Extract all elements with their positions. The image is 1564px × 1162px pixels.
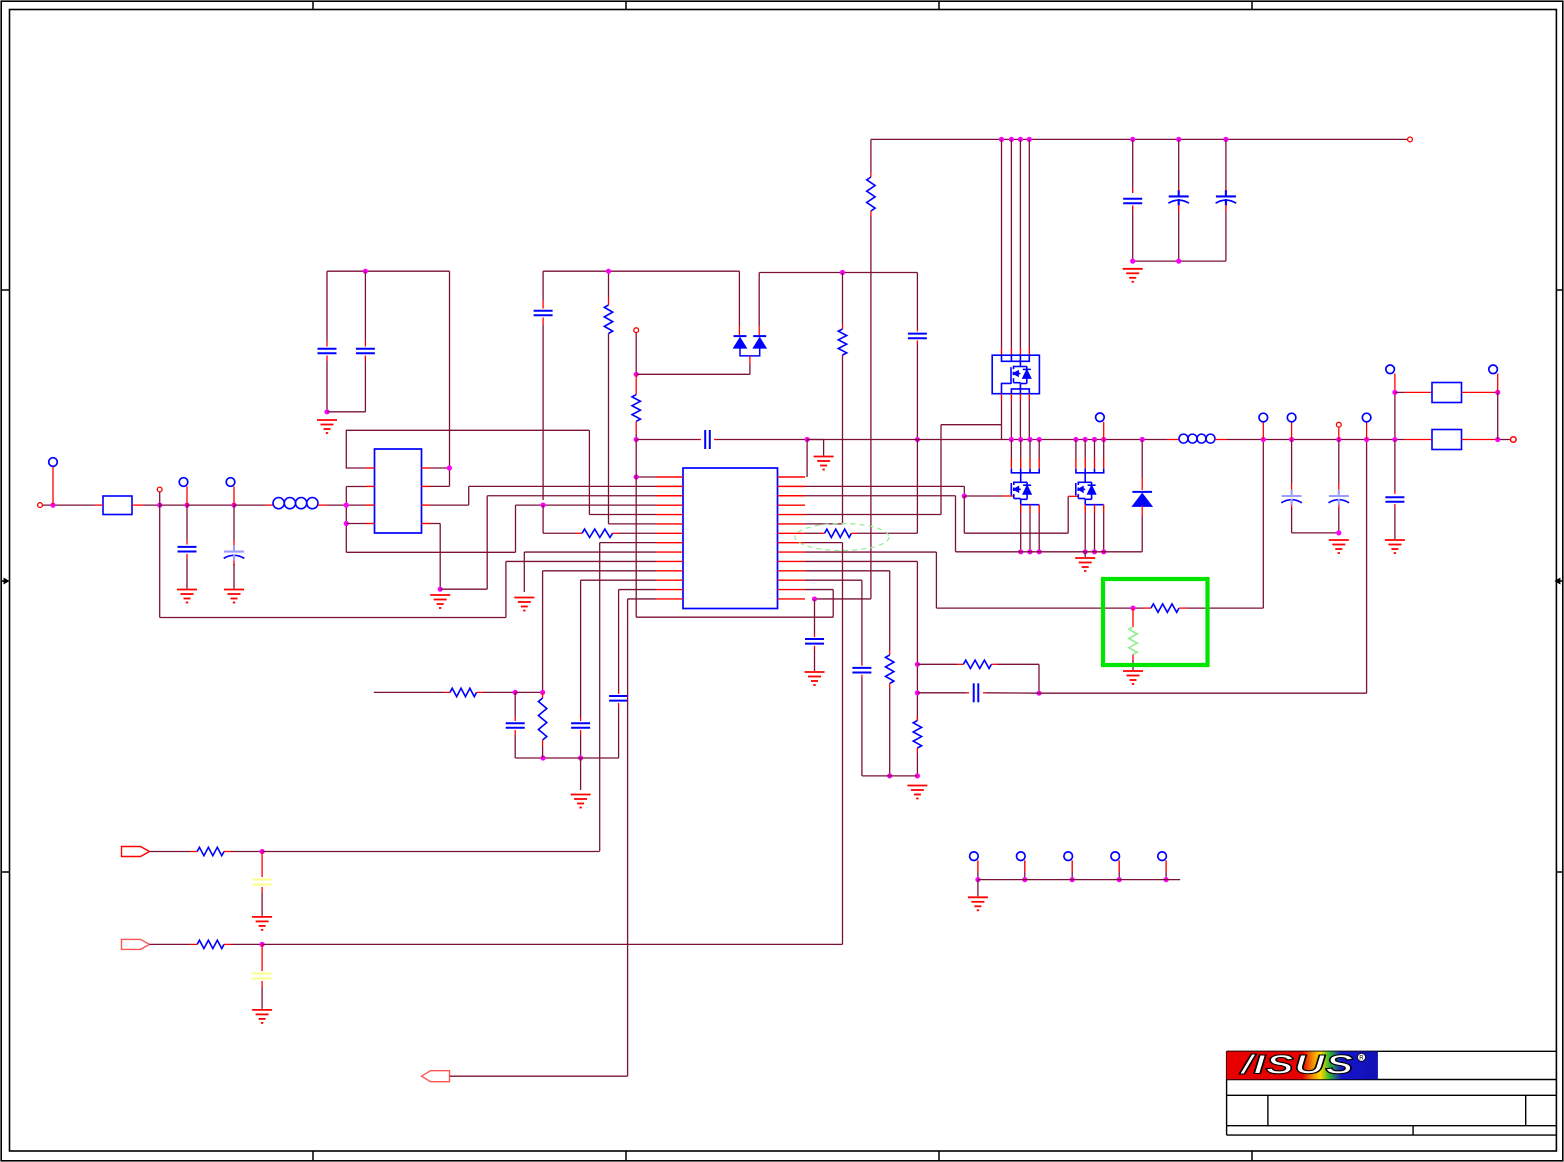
- wire Q2 bot3: [1038, 513, 1040, 552]
- mosfet Q1 symbol: [1011, 366, 1031, 389]
- capacitor C14 polarized: [1281, 490, 1302, 505]
- stub L1 right: [318, 504, 327, 506]
- U1 left pin 12 stub: [656, 579, 683, 581]
- stub R11 top: [916, 716, 918, 721]
- wire p12 right row: [805, 579, 862, 581]
- wire node D down to C2: [233, 505, 235, 540]
- stub topcap1: [1132, 188, 1134, 193]
- wire D2 join: [740, 348, 760, 356]
- wire gate cross: [964, 532, 1068, 534]
- U1 left pin 4 stub: [656, 504, 683, 506]
- junction node A: [50, 503, 55, 508]
- stub TP7: [1103, 422, 1105, 440]
- fuse F1: [103, 496, 132, 515]
- stub topcap2 b: [1178, 205, 1180, 212]
- wire EN long: [450, 1075, 628, 1077]
- wire p10 right row: [805, 560, 917, 562]
- testpoint TP1: [49, 458, 58, 467]
- wire U2 pin6 right: [430, 485, 449, 487]
- U2 right pin 7 stub: [422, 504, 431, 506]
- U1 right pin 25 stub: [778, 570, 806, 572]
- junction snub: [1036, 691, 1041, 696]
- stub C20 top: [261, 852, 263, 878]
- wire C4 down: [364, 361, 366, 412]
- wire Q3 top1: [1075, 440, 1077, 459]
- wire U1 p3 row: [487, 495, 656, 497]
- wire p9 right row: [805, 551, 936, 553]
- wire p14 link: [815, 598, 871, 600]
- junction TPr3: [1070, 877, 1075, 882]
- U1 left pin 3 stub: [656, 495, 683, 497]
- stub gate Q3: [1068, 495, 1078, 497]
- ground p12 chain: [571, 795, 591, 808]
- wire cap C5 chain: [542, 505, 544, 533]
- mosfet Q2 top bracket: [1011, 469, 1039, 483]
- junction p14 node: [812, 596, 817, 601]
- wire U2 pin7 right: [430, 504, 469, 506]
- stub Q1 pin8: [1028, 394, 1030, 401]
- wire C3 to gnd node: [326, 361, 328, 412]
- junction topcap1: [1130, 137, 1135, 142]
- stub C1 top: [186, 540, 188, 545]
- border tick bottom 2: [625, 1151, 627, 1161]
- port RC1: [122, 847, 150, 857]
- wire Rb1 left a: [1395, 391, 1405, 393]
- stub C12 top: [861, 663, 863, 666]
- resistor R4: [450, 688, 477, 696]
- stub R1 top: [608, 297, 610, 305]
- junction rail Q3 4: [1101, 437, 1106, 442]
- capacitor C11: [908, 334, 927, 339]
- wire Q3 bot3: [1103, 513, 1105, 552]
- ASUS logo: [1227, 1050, 1378, 1080]
- stub F1 left: [95, 504, 103, 506]
- wire gnd row: [862, 775, 918, 777]
- junction rail3 R6: [840, 270, 845, 275]
- ground C21: [252, 1010, 272, 1023]
- stub Rb1 left: [1405, 391, 1432, 393]
- stub C3 top: [326, 341, 328, 347]
- wire rail3 right: [759, 272, 917, 274]
- U1 right pin 26 stub: [778, 579, 806, 581]
- wire U2 pin4 left: [346, 523, 366, 525]
- junction node D: [231, 503, 236, 508]
- stub Q1 pin1: [1001, 348, 1003, 355]
- capacitor C12: [852, 668, 871, 673]
- stub Q3 bot2: [1094, 505, 1096, 513]
- wire D2 anode H: [636, 373, 750, 375]
- wire C21 down: [261, 987, 263, 1009]
- stub C7 bot: [618, 703, 620, 707]
- stub TPr4: [1118, 860, 1120, 872]
- wire cap337 down: [916, 344, 918, 440]
- wire topcap1 drop: [1132, 139, 1134, 188]
- wire L1 to U2 pin3: [327, 504, 366, 506]
- wire gate Q2: [964, 495, 1003, 497]
- wire node D to L1: [234, 504, 265, 506]
- wire R2 to U1: [618, 532, 656, 534]
- stub C6 bot: [580, 730, 582, 735]
- junction rail Q2 2: [1018, 437, 1023, 442]
- wire out rail b: [1227, 439, 1405, 441]
- stub R10 bot: [1132, 655, 1134, 660]
- highlight ellipse: [795, 524, 889, 551]
- junction U2 p5 node: [447, 465, 452, 470]
- wire C4 to C3 gnd: [327, 411, 365, 413]
- U1 left pin 11 stub: [656, 570, 683, 572]
- stub R6t top: [870, 172, 872, 177]
- stub topcap1 b: [1132, 206, 1134, 211]
- wire p3 right row: [805, 495, 956, 497]
- wire Q3 top4: [1103, 440, 1105, 459]
- U1 left pin 6 stub: [656, 523, 683, 525]
- stub C4 top: [364, 341, 366, 347]
- wire TPr2: [1024, 872, 1026, 880]
- wire D1 down: [1141, 516, 1143, 552]
- svg-text:/ISUS: /ISUS: [1239, 1050, 1354, 1080]
- ground cap group: [317, 420, 337, 433]
- port J1 input: [38, 503, 43, 508]
- stub C8 top: [514, 717, 516, 721]
- wire nodeB drop: [159, 505, 161, 617]
- resistor R15 box: [1432, 430, 1462, 450]
- capacitor C7: [609, 696, 628, 701]
- stub C1 bottom: [186, 554, 188, 559]
- wire Q1 pin6 down: [1010, 401, 1012, 440]
- wire rail2 capR: [717, 439, 807, 441]
- border tick left 1: [1, 289, 9, 291]
- U2 left pin 1 stub: [366, 467, 375, 469]
- wire p3 corner: [955, 496, 957, 552]
- wire p2 right row: [805, 485, 964, 487]
- stub TPr5: [1165, 860, 1167, 872]
- capacitor C8: [506, 723, 525, 728]
- stub Q2 top1: [1010, 458, 1012, 469]
- wire 917 to p7row: [916, 440, 918, 534]
- wire snub drop: [1038, 664, 1040, 693]
- junction rail Q2 4: [1037, 437, 1042, 442]
- testpoint TPr5: [1158, 852, 1167, 861]
- wire topcap2 drop: [1178, 139, 1180, 188]
- wire p6 riser: [608, 334, 610, 524]
- junction botrail Q2 3: [1037, 549, 1042, 554]
- wire p14 drop: [627, 599, 629, 1076]
- wire C4 drop: [364, 271, 366, 341]
- capacitor C9: [705, 430, 710, 449]
- wire gnd link: [440, 588, 487, 590]
- wire TPr3: [1071, 872, 1073, 880]
- regulator U2: [375, 449, 422, 533]
- wire rail2 capL: [636, 439, 699, 441]
- wire p10 drop2: [916, 561, 918, 720]
- wire RC cap drop: [514, 692, 516, 717]
- stub C14 top: [1291, 483, 1293, 490]
- junction TPr5: [1164, 877, 1169, 882]
- wire R6 down: [870, 216, 872, 599]
- wire gate drop: [963, 496, 965, 533]
- stub R13 left: [957, 663, 963, 665]
- junction D1 top: [1140, 437, 1145, 442]
- stub F1 right: [132, 504, 143, 506]
- stub L2 right: [1215, 439, 1227, 441]
- wire 1366 riser: [1366, 440, 1368, 693]
- wire C2 to GND: [233, 564, 235, 589]
- stub Q1 pin6: [1010, 394, 1012, 401]
- junction botrail Q2 1: [1018, 549, 1023, 554]
- ground p9: [514, 598, 534, 611]
- ground rail2: [814, 457, 834, 470]
- junction rail Q3 2: [1083, 437, 1088, 442]
- stub Q1 pin5: [1001, 394, 1003, 401]
- U1 left pin 1 stub: [656, 476, 683, 478]
- stub Q2 bot1: [1020, 505, 1022, 513]
- junction bus3 top: [1018, 137, 1023, 142]
- junction out3: [1336, 437, 1341, 442]
- resistor R5: [632, 395, 640, 422]
- junction RC p11: [540, 690, 545, 695]
- testpoint TP7: [1096, 413, 1105, 422]
- U1 left pin 8 stub: [656, 542, 683, 544]
- junction gnd row b: [915, 773, 920, 778]
- pin marker D2 node: [634, 328, 639, 333]
- capacitor C1: [178, 547, 197, 552]
- stub Q1 pin4: [1028, 348, 1030, 355]
- stub C7 top: [618, 691, 620, 694]
- wire rail corner down: [449, 271, 451, 486]
- wire topcap3 down: [1225, 212, 1227, 261]
- resistor R10 sense: [1129, 627, 1137, 655]
- wire topcap1 down: [1132, 210, 1134, 261]
- wire p7 right row: [805, 532, 820, 534]
- capacitor C3: [318, 349, 337, 354]
- ground C20: [252, 917, 272, 930]
- wire gnd spur drop: [823, 440, 825, 456]
- wire bus1: [1001, 139, 1003, 348]
- wire top rail: [871, 138, 1408, 140]
- wire R11 down: [916, 753, 918, 776]
- capacitor C13: [974, 683, 979, 702]
- stub TP3: [233, 486, 235, 505]
- mosfet Q2 bottom bracket: [1021, 504, 1039, 506]
- stub TP2: [186, 486, 188, 505]
- wire RC stub: [374, 691, 444, 693]
- wire Q2 top3: [1029, 440, 1031, 459]
- junction U2 gnd node: [438, 587, 443, 592]
- wire U2 pin2 left: [346, 486, 366, 488]
- junction D2 anode node: [634, 372, 639, 377]
- junction out2: [1289, 437, 1294, 442]
- capacitor C6: [571, 723, 590, 728]
- wire bottom link 758: [515, 757, 618, 759]
- junction 917 a: [915, 662, 920, 667]
- stub C11 bot: [916, 340, 918, 344]
- stub C12 bot: [861, 675, 863, 678]
- stub topcap3 b: [1225, 205, 1227, 212]
- junction botrail Q3 3: [1101, 549, 1106, 554]
- wire p6 right row: [805, 523, 843, 525]
- wire F1 to node B: [143, 504, 160, 506]
- stub Q3 top3: [1094, 458, 1096, 469]
- U1 right pin 18 stub: [778, 504, 806, 506]
- U1 right pin 24 stub: [778, 560, 806, 562]
- wire snub corner: [997, 663, 1039, 665]
- wire U1 p9 row: [524, 551, 656, 553]
- wire R4 to node: [483, 691, 515, 693]
- stub R13 right: [991, 663, 997, 665]
- junction gate node: [962, 493, 967, 498]
- resistor R1: [604, 305, 612, 334]
- wire snub res row: [917, 663, 957, 665]
- U2 left pin 3 stub: [366, 504, 375, 506]
- testpoint TP2: [179, 478, 188, 487]
- border tick bottom 3: [938, 1151, 940, 1161]
- stub R17 left: [190, 943, 197, 945]
- wire p9 drop: [523, 552, 525, 592]
- stub TP5: [1291, 422, 1293, 440]
- stub R8 right: [851, 532, 857, 534]
- stub C2 top: [233, 540, 235, 545]
- wire R2 left: [543, 532, 576, 534]
- wire C10 down: [814, 650, 816, 671]
- stub C5 top: [542, 300, 544, 309]
- stub C2 bottom: [233, 561, 235, 566]
- wire Q3 top3: [1094, 440, 1096, 459]
- wire C14 down: [1291, 508, 1293, 533]
- ground below C1: [177, 590, 197, 603]
- stub TPr2: [1024, 860, 1026, 872]
- wire R12 down: [889, 688, 891, 776]
- wire TPr4: [1118, 872, 1120, 880]
- U1 left pin 7 stub: [656, 532, 683, 534]
- wire R8 right: [857, 532, 917, 534]
- border tick top 2: [625, 1, 627, 9]
- U1 right pin 28 stub: [778, 598, 806, 600]
- capacitor C2 polarized: [224, 545, 245, 560]
- wire topcap2 down: [1178, 212, 1180, 261]
- testpoint TPr2: [1017, 852, 1026, 861]
- stub Q3 top1: [1075, 458, 1077, 469]
- stub R5 bot: [635, 421, 637, 434]
- border tick bottom 1: [312, 1151, 314, 1161]
- junction 917 b: [915, 690, 920, 695]
- capacitor C10: [805, 639, 824, 644]
- U2 right pin 5 stub: [422, 467, 431, 469]
- mosfet Q3 bottom bracket: [1085, 504, 1104, 506]
- resistor R3: [538, 698, 546, 740]
- stub topcap3: [1225, 188, 1227, 193]
- ground Q3: [1075, 558, 1095, 571]
- wire C8 down: [514, 735, 516, 758]
- stub TP6: [1366, 422, 1368, 440]
- wire D2 right riser: [758, 273, 760, 327]
- wire gate riser Q3: [1067, 496, 1069, 533]
- U1 right pin 22 stub: [778, 542, 806, 544]
- mosfet Q3 top bracket: [1076, 469, 1104, 483]
- stub C21 bot: [261, 981, 263, 987]
- wire circ to dot: [635, 333, 637, 375]
- border tick top 1: [312, 1, 314, 9]
- junction bus2 top: [1009, 137, 1014, 142]
- port RC2: [122, 939, 150, 949]
- stub Q3 bot3: [1103, 505, 1105, 513]
- junction Rb1 right: [1495, 390, 1500, 395]
- stub C6 top: [580, 717, 582, 721]
- wire p5 over: [941, 424, 1002, 426]
- stub Rb1 right: [1462, 391, 1495, 393]
- wire bus2: [1010, 139, 1012, 348]
- U1 left pin 2 stub: [656, 485, 683, 487]
- wire TPr5: [1165, 872, 1167, 880]
- wire R5 to rail2: [635, 434, 637, 440]
- junction gnd row a: [887, 773, 892, 778]
- wire U1 p13 row: [619, 589, 656, 591]
- stub C13 right: [983, 692, 986, 694]
- U1 right pin 27 stub: [778, 589, 806, 591]
- port VIN circle: [1408, 137, 1413, 142]
- stub C5 bot: [542, 318, 544, 326]
- junction TPr2: [1022, 877, 1027, 882]
- border tick right 1: [1556, 289, 1562, 291]
- wire U1 p5 row: [589, 514, 656, 516]
- junction botrail Q2 2: [1027, 549, 1032, 554]
- ground U2: [430, 595, 450, 608]
- wire RC2 b: [231, 943, 262, 945]
- stub Q1 pin3: [1019, 348, 1021, 355]
- junction topcap join1: [1130, 259, 1135, 264]
- junction botrail Q3 1: [1083, 549, 1088, 554]
- stub C16 top: [1394, 491, 1396, 494]
- resistor R14 box: [1432, 383, 1462, 403]
- stub Q2 bot2: [1029, 505, 1031, 513]
- wire bottom rail: [956, 551, 1143, 553]
- stub Rb2 left: [1405, 439, 1432, 441]
- wire p1 right riser: [806, 440, 808, 478]
- wire p8 drop right: [842, 543, 844, 945]
- testpoint TPr3: [1064, 852, 1073, 861]
- stub C11 top: [916, 329, 918, 332]
- wire R3 down: [542, 746, 544, 758]
- wire C16 drop: [1394, 440, 1396, 492]
- wire C6 gnd: [580, 758, 582, 790]
- wire bus3: [1019, 139, 1021, 348]
- wire Q1 pin5 down: [1001, 401, 1003, 440]
- wire D2 left riser: [738, 271, 740, 326]
- stub R9 left: [1143, 607, 1151, 609]
- stub Q1 pin2: [1010, 348, 1012, 355]
- ground below C2: [224, 590, 244, 603]
- wire R7 chain: [842, 355, 844, 524]
- wire p12 drop2: [861, 580, 863, 663]
- junction C6 gnd: [578, 755, 583, 760]
- ground C16: [1385, 540, 1405, 553]
- junction out port: [1495, 437, 1500, 442]
- wire up branch: [1394, 392, 1396, 439]
- wire node C to node D: [187, 504, 234, 506]
- wire p5 right row: [805, 514, 941, 516]
- junction topcap3: [1223, 137, 1228, 142]
- U1 right pin 19 stub: [778, 514, 806, 516]
- wire U1 p4 row: [516, 504, 657, 506]
- stub D2 right: [758, 326, 760, 336]
- wire C7 down: [618, 707, 620, 758]
- wire snub long: [1039, 692, 1367, 694]
- U1 right pin 21 stub: [778, 532, 806, 534]
- capacitor C19 polarized: [1216, 190, 1237, 205]
- stub C14 bot: [1291, 505, 1293, 510]
- junction topcap join2: [1176, 259, 1181, 264]
- wire U1 p1 row: [636, 476, 656, 478]
- stub R2 right: [613, 532, 619, 534]
